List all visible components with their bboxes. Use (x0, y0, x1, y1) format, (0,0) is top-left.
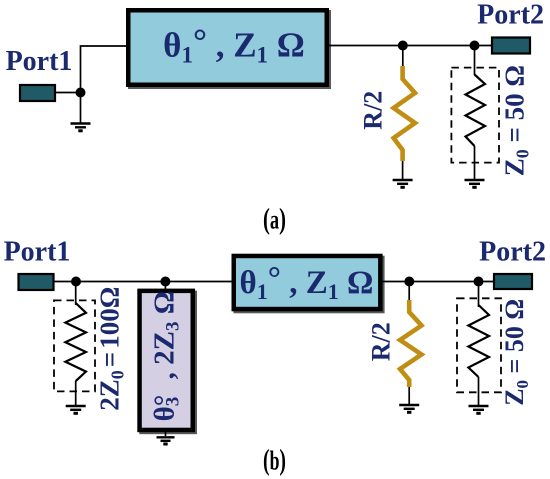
wire TL3 to ground (b) (165, 430, 167, 436)
wire node A up to TL1 input (a) (81, 46, 129, 93)
junction node G (b) (474, 277, 484, 287)
wire R/2 to ground (a) (402, 161, 404, 179)
wire Port1 to node A (a) (56, 92, 81, 94)
ground below load (b) (469, 406, 489, 413)
junction node A (a) (76, 88, 86, 98)
resistor R/2 (a) (394, 66, 415, 161)
wire node C down into load (a) (474, 46, 476, 76)
svg-text:Port2: Port2 (479, 237, 546, 268)
svg-text:Port2: Port2 (477, 0, 544, 31)
wire TL1 to node C via node B (a) (327, 45, 492, 47)
port Port1 terminal (a) (20, 85, 55, 101)
transmission line TL1 (b), theta1 Z1 (234, 256, 385, 314)
resistor Z0 load (b) (468, 305, 489, 377)
svg-text:(b): (b) (263, 444, 286, 477)
resistor R/2 (b) (400, 300, 422, 387)
svg-text:R/2: R/2 (367, 322, 396, 361)
ground below node A (a) (71, 124, 91, 131)
svg-text:Z0 = 50 Ω: Z0 = 50 Ω (500, 299, 532, 406)
ground below source load (b) (66, 406, 86, 413)
svg-text:Port1: Port1 (6, 46, 73, 77)
dashed box load Z0 (b) (457, 298, 501, 392)
port Port1 terminal (b) (19, 274, 54, 290)
stub transmission line TL3 (b), theta3 2Z3 (139, 291, 197, 435)
ground below R/2 (a) (393, 180, 413, 187)
wire source load to ground (b) (75, 381, 77, 405)
wire load resistor to ground (a) (474, 146, 476, 179)
wire node D down into source load (b) (75, 282, 77, 306)
wire node A to ground (a) (80, 93, 82, 123)
wire TL1 to Port2 via nodes F and G (b) (381, 281, 494, 283)
ground below TL3 (b) (157, 437, 175, 444)
wire node G down into load (b) (478, 282, 480, 308)
wire node B to resistor R/2 (a) (402, 46, 404, 68)
svg-text:Z0 = 50 Ω: Z0 = 50 Ω (500, 65, 533, 176)
junction node B (a) (398, 41, 408, 51)
ground below R/2 (b) (399, 405, 419, 412)
svg-text:R/2: R/2 (359, 91, 388, 130)
transmission line TL1 (a), theta1 Z1 (128, 10, 331, 89)
svg-text:(a): (a) (263, 203, 286, 236)
wire load resistor to ground (b) (478, 377, 480, 405)
wire R/2 to ground (b) (408, 387, 410, 404)
wire node E to stub TL3 (b) (164, 282, 166, 293)
resistor Z0 load (a) (466, 75, 486, 147)
svg-text:2Z0=100Ω: 2Z0=100Ω (95, 287, 128, 411)
resistor 2Z0 (b) (65, 303, 86, 381)
wire Port1 to TL2 through nodes D and E (b) (55, 281, 234, 283)
junction node E (b) (160, 277, 170, 287)
dashed box source load 2Z0 (b) (54, 300, 95, 391)
svg-text:Port1: Port1 (4, 237, 71, 268)
wire node F to resistor R/2 (b) (408, 282, 410, 302)
svg-text:θ3° , 2Z3 Ω: θ3° , 2Z3 Ω (149, 291, 184, 421)
dashed box load Z0 (a) (451, 68, 499, 163)
port Port2 terminal (b) (494, 274, 532, 289)
junction node F (b) (404, 277, 414, 287)
port Port2 terminal (a) (492, 38, 530, 54)
ground below load (a) (465, 180, 485, 187)
junction node C (a) (470, 41, 480, 51)
junction node D (b) (71, 277, 81, 287)
